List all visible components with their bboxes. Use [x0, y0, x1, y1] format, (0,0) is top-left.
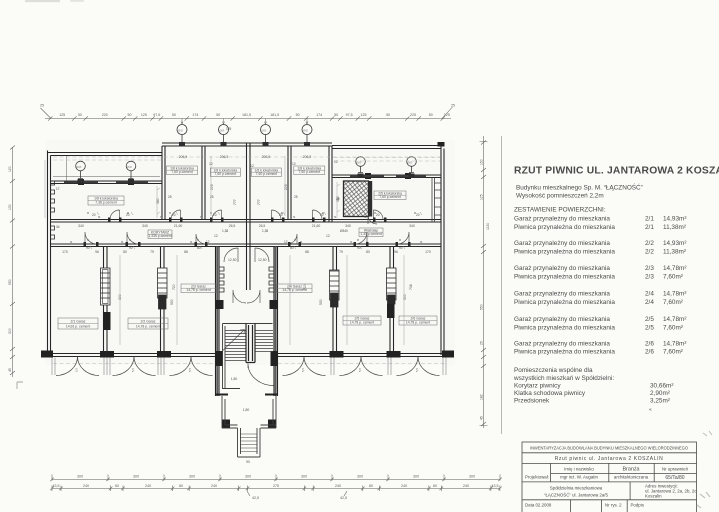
svg-text:Ø340: Ø340 — [340, 229, 348, 233]
svg-text:96: 96 — [394, 250, 398, 254]
stair center bar — [246, 324, 255, 363]
svg-text:14,78m²: 14,78m² — [663, 340, 686, 347]
svg-text:20: 20 — [376, 213, 380, 217]
vent circle A2 — [126, 161, 136, 178]
stairwell entry arcs — [233, 290, 246, 303]
svg-text:20: 20 — [213, 213, 217, 217]
wall garage divider x104 — [104, 247, 108, 354]
svg-text:7,60m²: 7,60m² — [663, 299, 683, 306]
svg-text:2/4: 2/4 — [645, 291, 654, 298]
svg-text:3,25m²: 3,25m² — [650, 397, 670, 404]
svg-text:550: 550 — [480, 304, 484, 310]
svg-text:Branża: Branża — [622, 467, 639, 473]
door jamb marks — [84, 218, 411, 248]
wall garage divider x333 — [333, 247, 337, 354]
svg-text:240: 240 — [145, 484, 151, 488]
svg-text:7,60 p.cement: 7,60 p.cement — [256, 172, 278, 176]
svg-text:125: 125 — [141, 113, 147, 117]
svg-text:97,5: 97,5 — [346, 113, 353, 117]
svg-text:125: 125 — [361, 113, 367, 117]
svg-text:14,78m²: 14,78m² — [663, 291, 686, 298]
svg-text:12,50: 12,50 — [228, 258, 237, 262]
svg-text:Piwnica przynależna do mieszka: Piwnica przynależna do mieszkania — [514, 273, 615, 280]
row lines — [522, 453, 697, 500]
svg-text:Garaż przynależny do mieszkani: Garaż przynależny do mieszkania — [514, 265, 610, 272]
pier stair-junction right — [271, 351, 279, 366]
wall garage front left — [41, 354, 216, 357]
wall cellar divider x202 — [202, 146, 205, 220]
svg-text:340: 340 — [409, 224, 415, 228]
tick marks bottom chain small — [50, 486, 502, 497]
svg-text:“ŁĄCZNOŚĆ” ul. Jantarowa 2a/5: “ŁĄCZNOŚĆ” ul. Jantarowa 2a/5 — [544, 492, 608, 497]
witness lines chain to circles — [181, 119, 308, 125]
vent circle B2 — [219, 125, 229, 144]
svg-text:125: 125 — [480, 194, 484, 200]
svg-text:2/2: 2/2 — [645, 249, 654, 256]
vent circles row A — [76, 125, 417, 179]
vent circle B1 — [177, 125, 187, 144]
svg-text:25: 25 — [40, 104, 44, 108]
vent circle C2 — [407, 157, 417, 173]
svg-text:720: 720 — [172, 284, 176, 290]
svg-text:Ø/Ø: Ø/Ø — [303, 128, 308, 132]
svg-text:Piwnica przynależna do mieszka: Piwnica przynależna do mieszkania — [514, 299, 615, 306]
flue ladder x104 — [101, 268, 111, 305]
svg-text:20: 20 — [279, 213, 283, 217]
svg-text:340: 340 — [78, 224, 84, 228]
svg-text:125: 125 — [444, 113, 450, 117]
svg-text:1,335 p.cement: 1,335 p.cement — [148, 234, 171, 238]
wall top-left — [48, 153, 163, 156]
svg-text:90: 90 — [86, 246, 90, 250]
vent circle B4 — [302, 125, 312, 144]
svg-text:206,5: 206,5 — [303, 155, 312, 159]
svg-text:Spółdzielnia mieszkaniowa: Spółdzielnia mieszkaniowa — [550, 486, 603, 491]
micro annotations — [70, 215, 423, 244]
hatch room door arc — [368, 215, 377, 224]
pier cap x161 — [157, 351, 171, 358]
svg-text:INWENTARYZACJA BUDOWLANA BUDYN: INWENTARYZACJA BUDOWLANA BUDYNKU MIESZKA… — [530, 445, 689, 450]
svg-text:80: 80 — [123, 250, 127, 254]
flue ladders — [51, 181, 397, 309]
svg-text:12: 12 — [284, 240, 288, 244]
svg-text:Korytarz piwnicy: Korytarz piwnicy — [514, 383, 561, 390]
svg-text:5,5: 5,5 — [188, 368, 192, 372]
top dimension chain — [41, 107, 453, 121]
svg-text:90: 90 — [399, 246, 403, 250]
thick wall segments — [64, 176, 426, 182]
vent circle C1 — [356, 157, 366, 173]
svg-text:1,38: 1,38 — [222, 229, 228, 233]
svg-text:architektoniczana: architektoniczana — [614, 475, 649, 480]
svg-text:43,5: 43,5 — [53, 484, 60, 488]
svg-text:174: 174 — [316, 113, 322, 117]
svg-text:380: 380 — [336, 196, 340, 202]
piers and caps — [41, 142, 454, 428]
stair top door arcs — [224, 248, 238, 262]
svg-text:26,5: 26,5 — [229, 224, 236, 228]
pier bottom-right corner — [442, 351, 454, 358]
svg-text:Garaż przynależny do mieszkani: Garaż przynależny do mieszkania — [514, 216, 610, 223]
svg-text:Nr rys. 2: Nr rys. 2 — [605, 503, 622, 508]
vent circle A1 — [76, 161, 86, 178]
svg-text:12: 12 — [214, 234, 218, 238]
svg-text:Imię i nazwisko: Imię i nazwisko — [564, 466, 594, 471]
svg-text:240: 240 — [211, 484, 217, 488]
svg-text:88: 88 — [184, 250, 188, 254]
svg-text:Nr uprawnień: Nr uprawnień — [662, 466, 689, 471]
left vertical dimension chain — [10, 146, 15, 378]
svg-text:125: 125 — [226, 127, 232, 131]
left strip extra lines — [53, 156, 160, 181]
svg-text:50: 50 — [128, 113, 132, 117]
svg-text:Ø/Ø: Ø/Ø — [178, 128, 183, 132]
svg-text:14,78 p. cement: 14,78 p. cement — [186, 288, 210, 292]
vestibule walls — [222, 396, 276, 428]
svg-text:11,38m²: 11,38m² — [663, 249, 686, 256]
flue ladder x161 — [158, 268, 168, 309]
wall garage divider x161 — [161, 247, 165, 354]
svg-text:7,60 p.cement: 7,60 p.cement — [379, 195, 401, 199]
svg-text:RZUT PIWNIC UL. JANTAROWA 2 KO: RZUT PIWNIC UL. JANTAROWA 2 KOSZALIN — [514, 166, 719, 177]
svg-text:Garaż przynależny do mieszkani: Garaż przynależny do mieszkania — [514, 316, 610, 323]
wall top-middle — [162, 143, 332, 146]
stair up arrow — [223, 330, 245, 351]
svg-text:ZESTAWIENIE POWIERZCHNI:: ZESTAWIENIE POWIERZCHNI: — [514, 207, 606, 214]
svg-text:Ø/Ø: Ø/Ø — [220, 128, 225, 132]
garage door 6 — [397, 357, 440, 376]
dashed construction lines — [53, 157, 445, 364]
svg-text:14,78m²: 14,78m² — [663, 265, 686, 272]
svg-text:300: 300 — [118, 294, 122, 300]
svg-text:300: 300 — [189, 475, 195, 479]
svg-text:11,38m²: 11,38m² — [663, 224, 686, 231]
svg-text:2/4: 2/4 — [645, 299, 654, 306]
wall left exterior — [48, 151, 51, 358]
stair treads left flight — [225, 331, 246, 361]
svg-text:20: 20 — [416, 213, 420, 217]
svg-text:5,5: 5,5 — [75, 368, 79, 372]
svg-text:720: 720 — [303, 284, 307, 290]
svg-text:Podpis: Podpis — [631, 503, 645, 508]
wall garage divider x390 — [390, 247, 394, 354]
svg-text:2/6: 2/6 — [645, 340, 654, 347]
svg-text:12: 12 — [250, 164, 254, 168]
svg-text:120: 120 — [8, 166, 12, 172]
dimension numbers top chain — [40, 104, 455, 118]
svg-text:2/3: 2/3 — [645, 265, 654, 272]
svg-text:45: 45 — [480, 416, 484, 420]
svg-text:Przedsionek: Przedsionek — [514, 397, 550, 404]
svg-text:300: 300 — [403, 294, 407, 300]
vent circle B3 — [261, 125, 271, 144]
svg-text:182: 182 — [480, 394, 484, 400]
wall stairwell bottom segments — [216, 394, 278, 396]
svg-text:Ø/Ø: Ø/Ø — [127, 165, 132, 169]
wall cellar divider x329 — [329, 146, 332, 222]
svg-text:181,5: 181,5 — [270, 113, 279, 117]
svg-text:60: 60 — [433, 484, 437, 488]
svg-text:34: 34 — [56, 225, 60, 229]
svg-text:90: 90 — [129, 246, 133, 250]
svg-text:50: 50 — [78, 113, 82, 117]
room label boxes — [58, 166, 437, 329]
corridor door arcs down — [85, 232, 97, 244]
svg-text:42,5: 42,5 — [252, 496, 259, 500]
svg-text:300: 300 — [77, 475, 83, 479]
wall interior left horizontal — [51, 181, 163, 184]
dark bar right of hatch — [369, 181, 372, 217]
svg-text:50: 50 — [296, 113, 300, 117]
svg-text:21,60: 21,60 — [312, 224, 321, 228]
svg-text:Projektował:: Projektował: — [525, 475, 549, 480]
svg-text:79: 79 — [150, 250, 154, 254]
pier wall-right-room b — [405, 173, 411, 179]
svg-text:20: 20 — [126, 213, 130, 217]
svg-text:14,93 p. cement: 14,93 p. cement — [66, 325, 90, 329]
dimension numbers bottom chain small — [53, 484, 499, 500]
svg-text:30,66m²: 30,66m² — [650, 383, 673, 390]
svg-text:205: 205 — [284, 184, 288, 190]
entry steps — [238, 428, 261, 457]
svg-text:7,38 p.cement: 7,38 p.cement — [95, 201, 117, 205]
corridor door arcs up — [85, 210, 409, 303]
garage door 3 — [170, 357, 213, 376]
svg-text:12,50: 12,50 — [258, 258, 267, 262]
svg-text:90: 90 — [246, 460, 250, 464]
svg-text:26,5: 26,5 — [259, 224, 266, 228]
svg-text:550: 550 — [8, 279, 12, 285]
garage door arcs — [52, 357, 446, 376]
svg-text:2,90m²: 2,90m² — [650, 390, 670, 397]
garage door 5 — [340, 357, 383, 376]
svg-text:2/5: 2/5 — [645, 324, 654, 331]
svg-text:150: 150 — [480, 159, 484, 165]
garage door 2 — [113, 357, 156, 376]
pier wall-right-room a — [365, 173, 371, 179]
svg-text:130: 130 — [8, 204, 12, 210]
bottom dimension chain 300s — [50, 475, 502, 482]
pier cap x333 — [330, 351, 344, 358]
svg-text:5,5: 5,5 — [415, 368, 419, 372]
svg-text:20: 20 — [92, 213, 96, 217]
svg-text:80: 80 — [179, 484, 183, 488]
svg-text:Garaż przynależny do mieszkani: Garaż przynależny do mieszkania — [514, 291, 610, 298]
svg-text:340: 340 — [345, 224, 351, 228]
svg-text:5,5: 5,5 — [301, 368, 305, 372]
svg-text:181,5: 181,5 — [242, 113, 251, 117]
svg-text:340: 340 — [142, 224, 148, 228]
svg-text:20: 20 — [172, 213, 176, 217]
svg-text:14,78 p. cement: 14,78 p. cement — [350, 321, 374, 325]
svg-text:Piwnica przynależna do mieszka: Piwnica przynależna do mieszkania — [514, 249, 615, 256]
column line row5 — [629, 482, 631, 500]
svg-text:7,60 p.cement: 7,60 p.cement — [215, 172, 237, 176]
svg-text:14,78 p. cement: 14,78 p. cement — [406, 321, 430, 325]
pier stair right — [270, 300, 278, 309]
svg-text:45: 45 — [8, 368, 12, 372]
flue ladder x390 — [387, 268, 397, 304]
svg-text:240: 240 — [401, 484, 407, 488]
svg-text:2/3: 2/3 — [645, 273, 654, 280]
svg-text:300: 300 — [133, 475, 139, 479]
svg-text:50: 50 — [216, 113, 220, 117]
separator line — [501, 136, 503, 434]
svg-text:1,38: 1,38 — [262, 229, 268, 233]
svg-text:25: 25 — [480, 341, 484, 345]
svg-text:Data 02.2008: Data 02.2008 — [525, 503, 552, 508]
stair comb left — [219, 267, 224, 292]
header mid line — [551, 472, 697, 474]
svg-text:21,60: 21,60 — [174, 224, 183, 228]
hatched storage room — [344, 181, 373, 217]
svg-text:300: 300 — [357, 475, 363, 479]
wall corridor top — [51, 220, 442, 223]
svg-text:777: 777 — [233, 199, 237, 205]
svg-text:«: « — [649, 407, 652, 413]
svg-text:Pomieszczenia wspólne dla: Pomieszczenia wspólne dla — [514, 367, 593, 374]
wall stairwell right — [274, 247, 278, 397]
svg-text:80: 80 — [290, 246, 294, 250]
svg-text:Rzut piwnic ul. Jantarowa: Rzut piwnic ul. Jantarowa 2 KOSZALIN — [555, 456, 664, 462]
svg-text:25: 25 — [210, 195, 214, 199]
bottom dimension chain small — [50, 486, 502, 497]
garage door 4 — [283, 357, 326, 376]
svg-text:1,33 p.cement: 1,33 p.cement — [360, 232, 382, 236]
svg-text:wszystkich mieszkań w Spółdzie: wszystkich mieszkań w Spółdzielni: — [513, 375, 614, 382]
svg-text:220: 220 — [102, 113, 108, 117]
pier cap x104 — [100, 351, 114, 358]
wall center x246 — [247, 143, 251, 290]
tick marks top chain — [48, 116, 445, 120]
svg-text:2/2: 2/2 — [645, 240, 654, 247]
svg-text:550: 550 — [319, 299, 323, 305]
door leaf lines under piers — [52, 358, 446, 376]
stair comb right — [269, 267, 274, 292]
svg-text:60: 60 — [115, 484, 119, 488]
svg-text:777: 777 — [257, 199, 261, 205]
dimension numbers bottom chain 300s — [77, 475, 475, 479]
svg-text:25: 25 — [451, 104, 455, 108]
svg-text:240: 240 — [335, 484, 341, 488]
svg-text:50: 50 — [429, 113, 433, 117]
svg-text:17: 17 — [56, 187, 60, 191]
svg-text:14,93m²: 14,93m² — [663, 216, 686, 223]
svg-text:43,5: 43,5 — [492, 484, 499, 488]
svg-text:2/2 Garaz: 2/2 Garaz — [141, 320, 156, 324]
svg-text:12: 12 — [292, 162, 296, 166]
pier stair left — [216, 300, 224, 309]
svg-text:550: 550 — [170, 299, 174, 305]
svg-text:7,60 p.cement: 7,60 p.cement — [171, 170, 193, 174]
svg-text:206,5: 206,5 — [262, 155, 271, 159]
wall cellar divider x162 — [162, 146, 165, 220]
svg-text:1,80: 1,80 — [231, 377, 238, 381]
svg-text:300: 300 — [245, 475, 251, 479]
TITLE-BLOCK — [522, 442, 697, 512]
svg-text:380: 380 — [156, 198, 160, 204]
svg-text:12: 12 — [206, 240, 210, 244]
wall interior right horizontal — [332, 175, 441, 178]
niche strip right wall — [432, 178, 441, 223]
pier wall-left-room a — [78, 179, 84, 185]
wall top-right — [332, 146, 441, 149]
stair inner box — [223, 324, 273, 390]
stair treads right flight — [256, 331, 274, 352]
svg-text:225: 225 — [410, 113, 416, 117]
svg-text:12: 12 — [334, 160, 338, 164]
svg-text:20: 20 — [320, 213, 324, 217]
wall right exterior — [441, 146, 444, 356]
svg-text:2/1: 2/1 — [645, 224, 654, 231]
corner stub top-right — [438, 142, 445, 147]
svg-text:97,5: 97,5 — [153, 113, 160, 117]
svg-text:80: 80 — [366, 250, 370, 254]
svg-text:275: 275 — [273, 484, 279, 488]
svg-text:12: 12 — [326, 234, 330, 238]
svg-text:Budynku mieszkalnego Sp. M. “Ł: Budynku mieszkalnego Sp. M. “ŁĄCZNOŚĆ” — [516, 183, 643, 192]
pier cap x390 — [387, 351, 401, 358]
svg-text:170: 170 — [425, 250, 431, 254]
svg-text:Garaż przynależny do mieszkani: Garaż przynależny do mieszkania — [514, 240, 610, 247]
left wall teeth — [51, 181, 55, 239]
svg-text:300: 300 — [469, 475, 475, 479]
vertical mini chains near walls — [45, 156, 340, 218]
heavy stair walls — [216, 247, 278, 397]
PLAN-WALLS — [41, 143, 454, 357]
svg-text:50: 50 — [386, 113, 390, 117]
svg-text:96: 96 — [95, 250, 99, 254]
svg-text:mgr inż. W. Augatin: mgr inż. W. Augatin — [560, 475, 598, 480]
svg-text:79: 79 — [339, 250, 343, 254]
wall corridor bottom — [51, 244, 442, 247]
right vertical dimension chain — [480, 136, 488, 428]
svg-text:2/5: 2/5 — [645, 316, 654, 323]
svg-text:42,5: 42,5 — [340, 496, 347, 500]
svg-text:Piwnica przynależna do mieszka: Piwnica przynależna do mieszkania — [514, 224, 615, 231]
pier vestibule left — [222, 420, 230, 429]
divider stub x104 — [103, 312, 111, 330]
flue ladder x333 — [330, 270, 340, 307]
pier bottom-left corner — [41, 351, 53, 358]
svg-text:738: 738 — [409, 284, 413, 290]
wall garage front right — [278, 354, 455, 357]
scattered small dims — [62, 155, 431, 464]
svg-text:300: 300 — [8, 328, 12, 334]
svg-text:300: 300 — [301, 475, 307, 479]
svg-text:206,5: 206,5 — [179, 155, 188, 159]
svg-text:1130: 1130 — [486, 223, 490, 230]
svg-text:14,93m²: 14,93m² — [663, 240, 686, 247]
svg-text:174: 174 — [192, 113, 198, 117]
svg-text:Ø/Ø: Ø/Ø — [262, 128, 267, 132]
pier vestibule right — [268, 420, 276, 429]
svg-text:5,5: 5,5 — [358, 368, 362, 372]
wall stairwell left — [216, 247, 220, 397]
svg-text:206,5: 206,5 — [220, 155, 229, 159]
svg-text:7,60m²: 7,60m² — [663, 349, 683, 356]
svg-text:Wysokość pomnieszczeń 2,2m: Wysokość pomnieszczeń 2,2m — [516, 192, 604, 199]
svg-text:300: 300 — [413, 475, 419, 479]
svg-text:5,5: 5,5 — [131, 368, 135, 372]
column lines rows3-4 — [551, 463, 655, 482]
stem wall piers — [78, 142, 415, 184]
svg-text:25: 25 — [294, 195, 298, 199]
tick marks bottom chain 300s — [50, 475, 502, 482]
stair interior — [223, 324, 274, 390]
svg-text:170: 170 — [62, 250, 68, 254]
svg-text:7,60 p.cement: 7,60 p.cement — [299, 170, 321, 174]
